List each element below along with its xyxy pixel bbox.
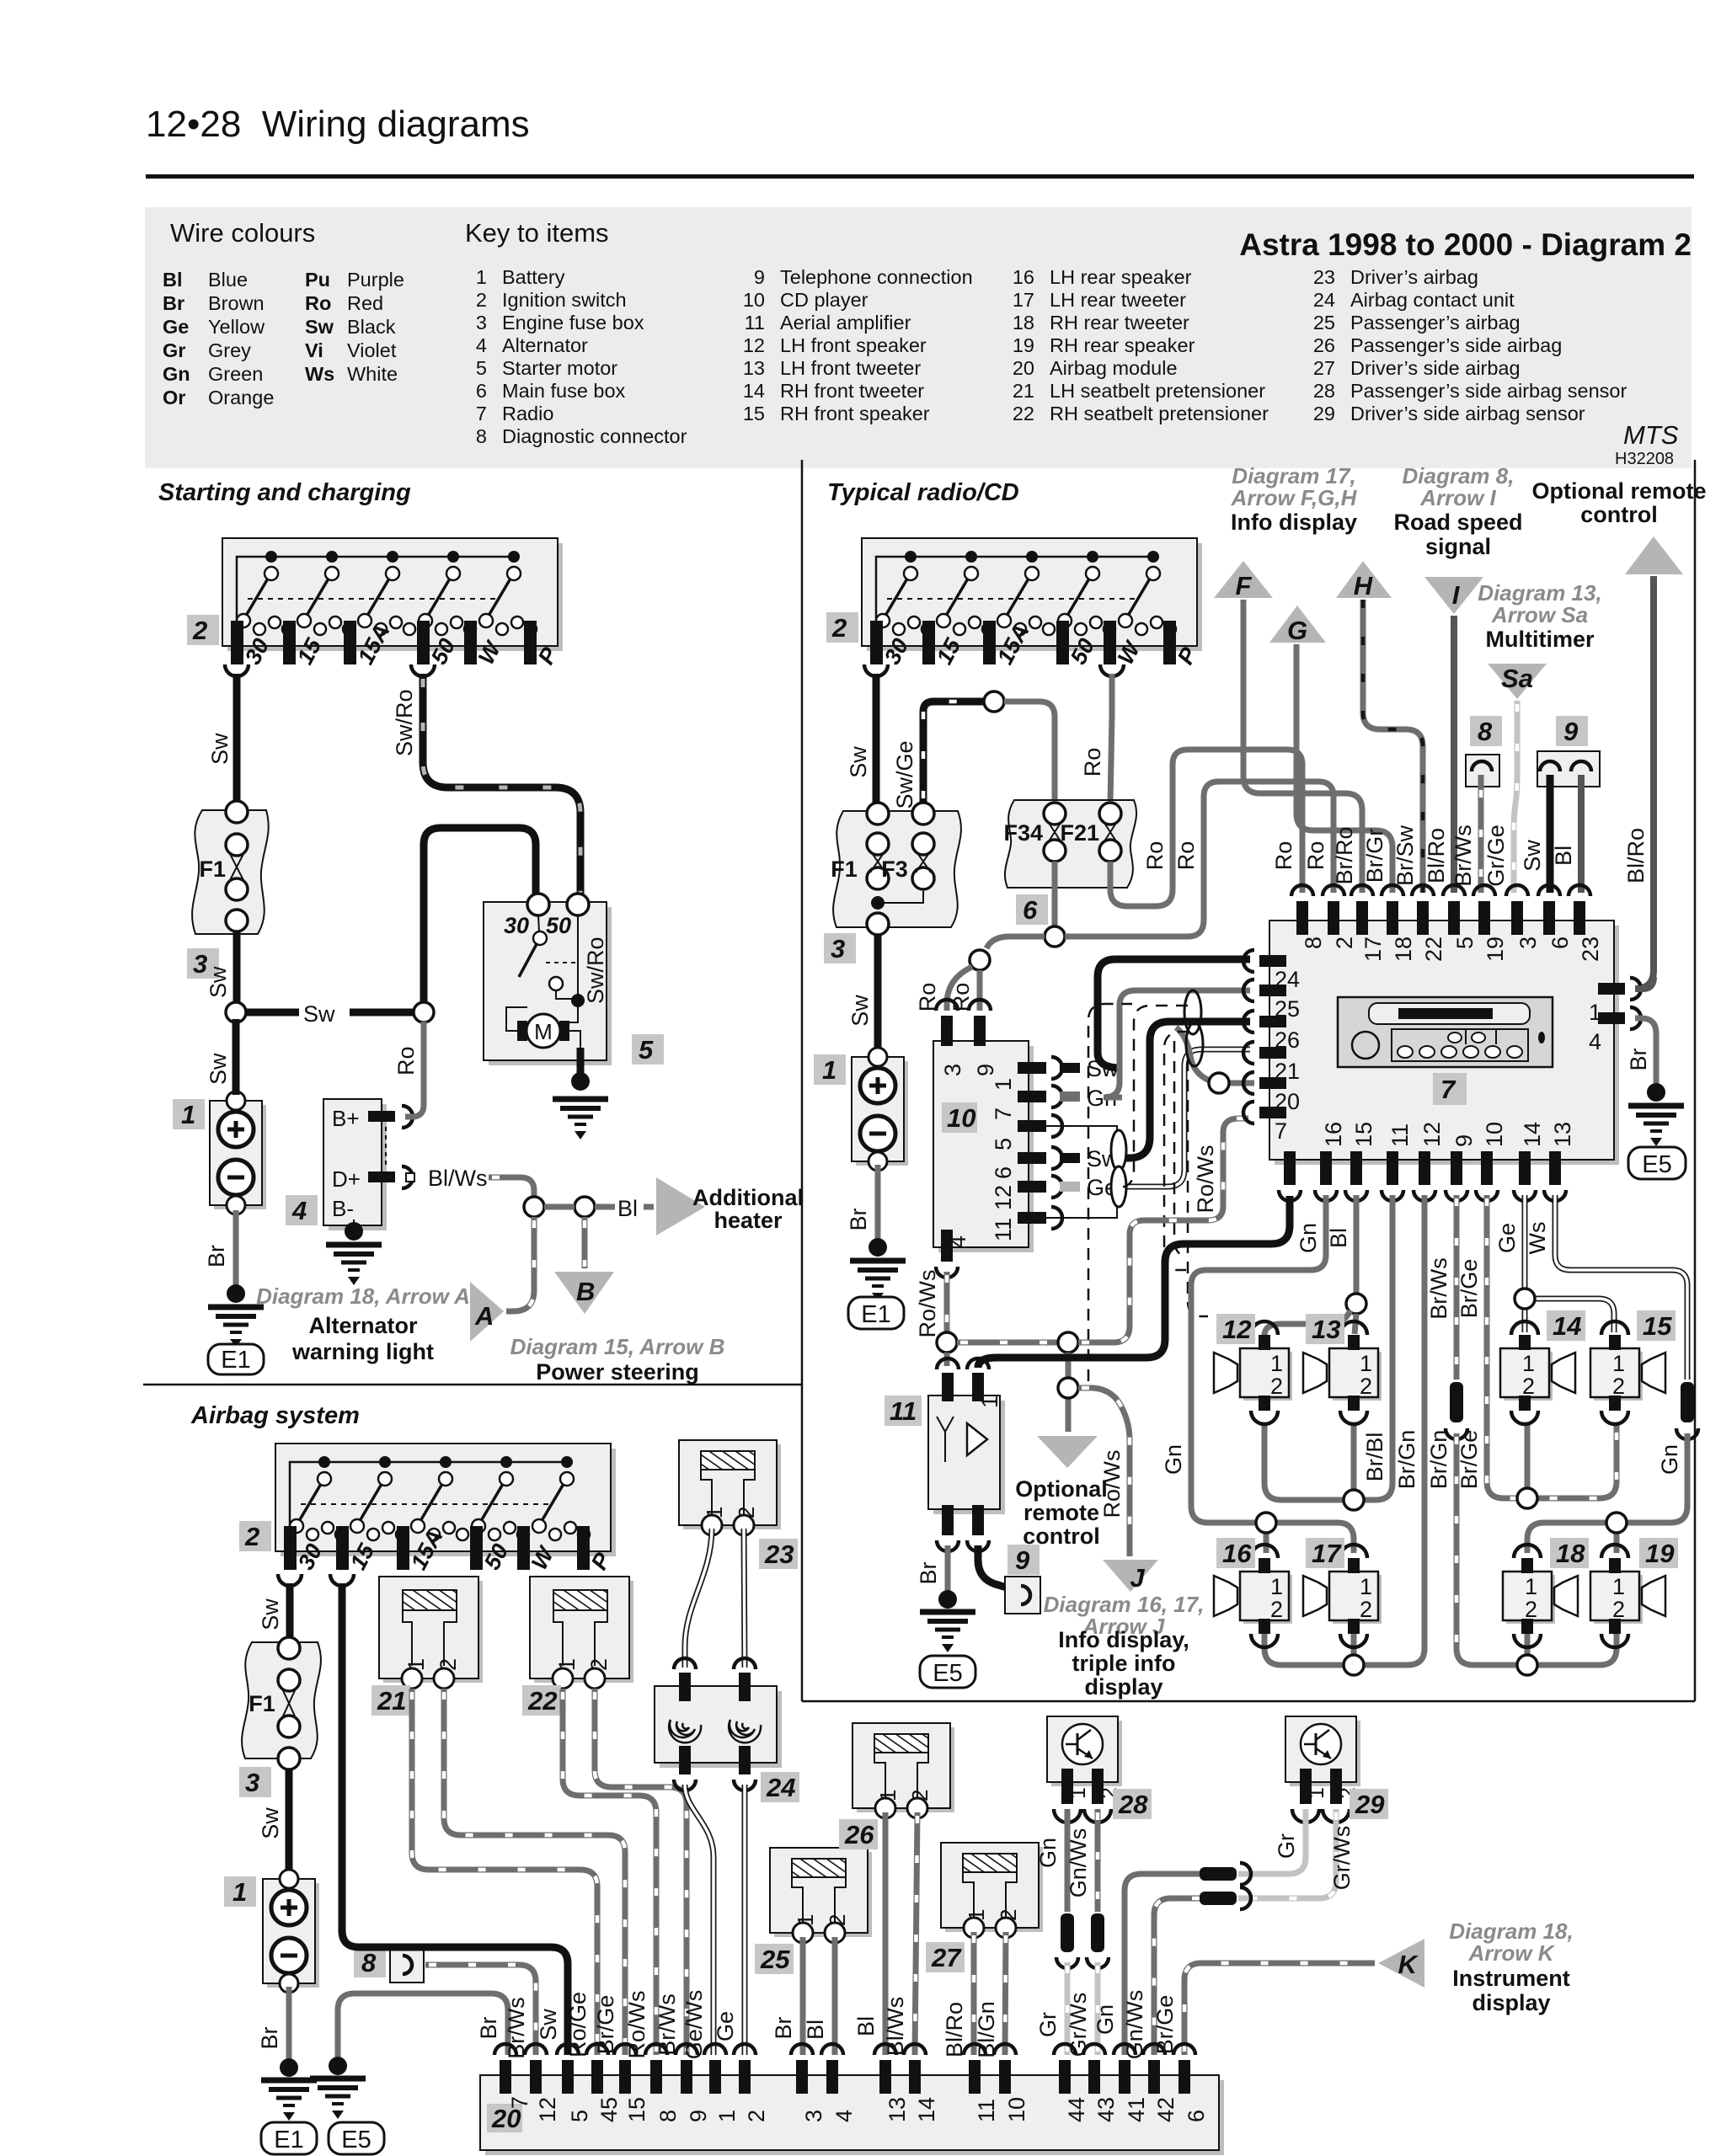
svg-text:19: 19 bbox=[1013, 334, 1034, 356]
svg-text:18: 18 bbox=[1391, 937, 1416, 962]
svg-text:F3: F3 bbox=[881, 857, 908, 882]
svg-text:Grey: Grey bbox=[208, 339, 251, 361]
svg-text:Br: Br bbox=[771, 2016, 796, 2039]
svg-text:Info display: Info display bbox=[1231, 510, 1357, 535]
svg-text:Passenger’s side airbag sensor: Passenger’s side airbag sensor bbox=[1350, 380, 1627, 402]
svg-text:Info display,: Info display, bbox=[1058, 1627, 1189, 1652]
svg-text:Diagnostic connector: Diagnostic connector bbox=[502, 425, 687, 447]
svg-text:13: 13 bbox=[885, 2097, 910, 2122]
svg-text:Br/Ro: Br/Ro bbox=[1332, 826, 1357, 884]
svg-text:Sa: Sa bbox=[1501, 664, 1533, 693]
svg-text:44: 44 bbox=[1064, 2097, 1089, 2122]
svg-text:Ignition switch: Ignition switch bbox=[502, 289, 627, 311]
svg-text:Bl/Ro: Bl/Ro bbox=[1424, 828, 1449, 883]
svg-text:Sw: Sw bbox=[303, 1001, 335, 1027]
svg-text:Ws: Ws bbox=[305, 363, 334, 385]
svg-text:26: 26 bbox=[1275, 1027, 1300, 1053]
svg-text:Arrow K: Arrow K bbox=[1467, 1940, 1555, 1966]
svg-text:7: 7 bbox=[991, 1107, 1016, 1120]
svg-text:Main fuse box: Main fuse box bbox=[502, 380, 626, 402]
svg-text:Alternator: Alternator bbox=[502, 334, 588, 356]
svg-text:Red: Red bbox=[347, 292, 383, 314]
svg-text:MTS: MTS bbox=[1623, 420, 1679, 450]
svg-text:25: 25 bbox=[1275, 996, 1300, 1022]
svg-text:Br/Ws: Br/Ws bbox=[1451, 825, 1476, 887]
svg-text:RH rear speaker: RH rear speaker bbox=[1050, 334, 1195, 356]
svg-text:Br/Ws: Br/Ws bbox=[1426, 1257, 1451, 1320]
svg-text:A: A bbox=[474, 1301, 494, 1331]
svg-text:14: 14 bbox=[1520, 1122, 1545, 1147]
svg-text:Br/Gn: Br/Gn bbox=[1394, 1430, 1419, 1490]
svg-text:11: 11 bbox=[974, 2099, 999, 2122]
svg-text:E1: E1 bbox=[221, 1347, 250, 1374]
svg-text:I: I bbox=[1452, 580, 1461, 610]
svg-text:Sw/Ro: Sw/Ro bbox=[583, 937, 608, 1004]
svg-text:B+: B+ bbox=[332, 1106, 360, 1131]
svg-text:3: 3 bbox=[940, 1064, 965, 1076]
svg-text:G: G bbox=[1287, 616, 1307, 645]
svg-text:2: 2 bbox=[244, 1522, 259, 1551]
svg-text:control: control bbox=[1580, 502, 1658, 527]
svg-text:28: 28 bbox=[1118, 1790, 1148, 1819]
svg-text:Gn: Gn bbox=[1657, 1444, 1682, 1475]
svg-text:3: 3 bbox=[1515, 937, 1541, 949]
svg-text:Ro: Ro bbox=[1142, 841, 1168, 871]
svg-text:RH rear tweeter: RH rear tweeter bbox=[1050, 312, 1189, 334]
svg-text:Telephone connection: Telephone connection bbox=[780, 266, 973, 288]
svg-text:9: 9 bbox=[973, 1064, 998, 1076]
svg-text:13: 13 bbox=[1550, 1122, 1575, 1147]
svg-text:19: 19 bbox=[1483, 937, 1508, 962]
svg-text:Ro/Ws: Ro/Ws bbox=[1193, 1145, 1218, 1214]
svg-text:Ro: Ro bbox=[1271, 841, 1296, 871]
svg-text:Gr: Gr bbox=[1274, 1833, 1299, 1859]
svg-text:CD player: CD player bbox=[780, 289, 869, 311]
svg-text:Sw: Sw bbox=[305, 316, 334, 338]
svg-text:Purple: Purple bbox=[347, 269, 404, 291]
svg-text:Arrow I: Arrow I bbox=[1419, 485, 1496, 510]
svg-text:Br: Br bbox=[476, 2016, 501, 2039]
svg-text:F34: F34 bbox=[1003, 820, 1043, 846]
svg-text:Optional: Optional bbox=[1015, 1476, 1108, 1502]
svg-text:1: 1 bbox=[232, 1877, 247, 1907]
svg-text:Arrow F,G,H: Arrow F,G,H bbox=[1231, 485, 1358, 510]
svg-text:29: 29 bbox=[1313, 403, 1335, 424]
svg-text:21: 21 bbox=[1013, 380, 1034, 402]
svg-text:Bl: Bl bbox=[803, 2020, 828, 2040]
svg-text:17: 17 bbox=[1312, 1539, 1342, 1568]
svg-text:8: 8 bbox=[655, 2110, 681, 2122]
svg-text:Airbag system: Airbag system bbox=[190, 1402, 360, 1429]
svg-text:M: M bbox=[534, 1019, 553, 1044]
svg-text:Gr: Gr bbox=[1035, 2012, 1061, 2037]
svg-text:8: 8 bbox=[1301, 937, 1326, 949]
svg-text:Starting and charging: Starting and charging bbox=[158, 479, 411, 506]
svg-text:15: 15 bbox=[1643, 1311, 1672, 1341]
svg-text:Airbag module: Airbag module bbox=[1050, 357, 1178, 379]
svg-text:22: 22 bbox=[1421, 937, 1446, 962]
svg-text:display: display bbox=[1472, 1990, 1550, 2015]
svg-text:LH seatbelt pretensioner: LH seatbelt pretensioner bbox=[1050, 380, 1265, 402]
svg-text:B: B bbox=[576, 1277, 595, 1306]
svg-text:Br: Br bbox=[916, 1561, 941, 1584]
svg-text:6: 6 bbox=[476, 380, 487, 402]
svg-text:Sw: Sw bbox=[206, 966, 231, 998]
svg-text:Driver’s side airbag: Driver’s side airbag bbox=[1350, 357, 1521, 379]
svg-text:12: 12 bbox=[1222, 1315, 1251, 1344]
svg-text:23: 23 bbox=[1578, 937, 1603, 962]
svg-text:Gr/Ge: Gr/Ge bbox=[1483, 825, 1509, 887]
svg-text:Br: Br bbox=[846, 1208, 871, 1230]
svg-text:H: H bbox=[1354, 571, 1373, 600]
svg-text:Ro: Ro bbox=[1080, 748, 1105, 777]
svg-text:Ro: Ro bbox=[393, 1046, 419, 1075]
svg-text:Ro: Ro bbox=[1173, 841, 1199, 871]
svg-text:Instrument: Instrument bbox=[1452, 1966, 1570, 1991]
svg-text:16: 16 bbox=[1222, 1539, 1252, 1568]
svg-text:24: 24 bbox=[1275, 967, 1300, 992]
svg-text:18: 18 bbox=[1556, 1539, 1585, 1568]
svg-text:19: 19 bbox=[1645, 1539, 1675, 1568]
svg-text:RH front speaker: RH front speaker bbox=[780, 403, 930, 424]
svg-text:21: 21 bbox=[1275, 1059, 1300, 1084]
svg-text:5: 5 bbox=[991, 1138, 1016, 1150]
svg-text:2: 2 bbox=[1332, 937, 1357, 949]
svg-text:E1: E1 bbox=[274, 2127, 303, 2153]
svg-text:Ro/Ws: Ro/Ws bbox=[915, 1270, 940, 1338]
svg-text:Br/Gn: Br/Gn bbox=[1426, 1430, 1451, 1490]
svg-text:Green: Green bbox=[208, 363, 263, 385]
svg-text:8: 8 bbox=[361, 1948, 377, 1977]
svg-text:Br: Br bbox=[1626, 1048, 1651, 1070]
svg-text:LH rear tweeter: LH rear tweeter bbox=[1050, 289, 1186, 311]
svg-text:7: 7 bbox=[507, 2096, 532, 2109]
svg-text:9: 9 bbox=[754, 266, 765, 288]
svg-text:6: 6 bbox=[991, 1166, 1016, 1179]
svg-text:Ws: Ws bbox=[1525, 1222, 1550, 1255]
svg-text:14: 14 bbox=[743, 380, 765, 402]
svg-text:Br: Br bbox=[204, 1245, 229, 1267]
svg-text:25: 25 bbox=[1313, 312, 1335, 334]
svg-text:Typical radio/CD: Typical radio/CD bbox=[827, 479, 1019, 506]
svg-text:24: 24 bbox=[766, 1773, 795, 1802]
svg-text:Passenger’s side airbag: Passenger’s side airbag bbox=[1350, 334, 1562, 356]
svg-text:Br/Ge: Br/Ge bbox=[1456, 1259, 1482, 1319]
svg-text:D+: D+ bbox=[332, 1166, 361, 1192]
svg-text:Gn: Gn bbox=[1093, 2004, 1118, 2035]
svg-text:17: 17 bbox=[1013, 289, 1034, 311]
svg-text:Diagram 18, Arrow A: Diagram 18, Arrow A bbox=[256, 1283, 470, 1309]
svg-text:4: 4 bbox=[945, 1235, 970, 1248]
svg-text:28: 28 bbox=[1313, 380, 1335, 402]
svg-text:Ro: Ro bbox=[305, 292, 331, 314]
svg-text:20: 20 bbox=[1013, 357, 1034, 379]
svg-text:F1: F1 bbox=[831, 857, 858, 882]
svg-text:4: 4 bbox=[831, 2110, 857, 2122]
svg-text:Battery: Battery bbox=[502, 266, 565, 288]
svg-text:signal: signal bbox=[1425, 534, 1491, 559]
svg-text:Alternator: Alternator bbox=[308, 1313, 418, 1338]
svg-text:8: 8 bbox=[1478, 717, 1493, 746]
svg-text:8: 8 bbox=[476, 425, 487, 447]
svg-text:6: 6 bbox=[1547, 937, 1573, 949]
svg-text:41: 41 bbox=[1124, 2097, 1149, 2122]
svg-text:Sw: Sw bbox=[536, 2009, 561, 2041]
svg-text:1: 1 bbox=[181, 1100, 195, 1129]
svg-text:White: White bbox=[347, 363, 398, 385]
svg-text:triple info: triple info bbox=[1072, 1651, 1176, 1676]
svg-text:Radio: Radio bbox=[502, 403, 553, 424]
svg-text:LH rear speaker: LH rear speaker bbox=[1050, 266, 1192, 288]
svg-text:23: 23 bbox=[764, 1540, 794, 1569]
svg-text:Power steering: Power steering bbox=[536, 1359, 699, 1385]
svg-text:26: 26 bbox=[844, 1820, 874, 1849]
svg-text:Bl: Bl bbox=[163, 269, 183, 291]
svg-text:F21: F21 bbox=[1060, 820, 1099, 846]
svg-text:2: 2 bbox=[831, 613, 847, 643]
svg-text:Multitimer: Multitimer bbox=[1485, 627, 1594, 652]
svg-text:5: 5 bbox=[639, 1035, 654, 1065]
svg-text:3: 3 bbox=[476, 312, 487, 334]
svg-text:Br/Ge: Br/Ge bbox=[1456, 1430, 1482, 1490]
svg-text:Sw: Sw bbox=[846, 746, 871, 778]
svg-text:45: 45 bbox=[596, 2097, 622, 2122]
svg-text:Road speed: Road speed bbox=[1393, 510, 1522, 535]
svg-text:F1: F1 bbox=[249, 1691, 275, 1716]
svg-text:Key to items: Key to items bbox=[465, 218, 609, 248]
svg-text:RH seatbelt pretensioner: RH seatbelt pretensioner bbox=[1050, 403, 1269, 424]
svg-text:5: 5 bbox=[476, 357, 487, 379]
svg-text:Optional remote: Optional remote bbox=[1531, 478, 1706, 504]
svg-text:11: 11 bbox=[890, 1396, 917, 1426]
svg-text:9: 9 bbox=[1015, 1545, 1030, 1575]
svg-text:4: 4 bbox=[1589, 1029, 1601, 1054]
svg-text:Arrow Sa: Arrow Sa bbox=[1491, 602, 1588, 627]
svg-text:7: 7 bbox=[1275, 1118, 1287, 1144]
svg-text:5: 5 bbox=[1452, 937, 1478, 949]
svg-text:Sw: Sw bbox=[1520, 840, 1545, 872]
svg-text:12: 12 bbox=[991, 1185, 1016, 1210]
svg-text:Gr/Ws: Gr/Ws bbox=[1329, 1826, 1355, 1890]
svg-text:42: 42 bbox=[1153, 2097, 1179, 2122]
svg-text:Starter motor: Starter motor bbox=[502, 357, 617, 379]
svg-text:Sw: Sw bbox=[847, 995, 873, 1027]
svg-text:Br/Bl: Br/Bl bbox=[1362, 1433, 1387, 1482]
svg-text:Passenger’s airbag: Passenger’s airbag bbox=[1350, 312, 1521, 334]
svg-text:LH front tweeter: LH front tweeter bbox=[780, 357, 921, 379]
svg-text:23: 23 bbox=[1313, 266, 1335, 288]
svg-text:Gn: Gn bbox=[163, 363, 190, 385]
svg-text:Br/Ws: Br/Ws bbox=[655, 1993, 680, 2056]
svg-text:25: 25 bbox=[760, 1945, 790, 1974]
svg-text:20: 20 bbox=[1275, 1089, 1300, 1114]
svg-text:Aerial amplifier: Aerial amplifier bbox=[780, 312, 911, 334]
svg-text:K: K bbox=[1398, 1950, 1419, 1979]
svg-text:Gn: Gn bbox=[1035, 1838, 1061, 1868]
svg-text:10: 10 bbox=[1004, 2097, 1029, 2122]
svg-text:9: 9 bbox=[1451, 1134, 1477, 1147]
svg-text:43: 43 bbox=[1093, 2097, 1119, 2122]
svg-text:1: 1 bbox=[991, 1078, 1016, 1091]
svg-text:11: 11 bbox=[1387, 1123, 1413, 1147]
svg-text:Bl/Ro: Bl/Ro bbox=[1623, 828, 1649, 883]
svg-text:15: 15 bbox=[624, 2097, 649, 2122]
svg-text:29: 29 bbox=[1355, 1790, 1385, 1819]
svg-text:Br/Sw: Br/Sw bbox=[1392, 825, 1418, 886]
svg-text:2: 2 bbox=[476, 289, 487, 311]
svg-text:11: 11 bbox=[991, 1218, 1016, 1241]
svg-text:B-: B- bbox=[332, 1196, 354, 1221]
svg-text:13: 13 bbox=[743, 357, 765, 379]
svg-text:1: 1 bbox=[822, 1055, 836, 1085]
svg-text:H32208: H32208 bbox=[1615, 450, 1674, 468]
svg-text:Brown: Brown bbox=[208, 292, 265, 314]
svg-text:12: 12 bbox=[535, 2097, 560, 2122]
svg-text:10: 10 bbox=[1482, 1122, 1507, 1147]
svg-text:Vi: Vi bbox=[305, 339, 323, 361]
svg-text:Sw: Sw bbox=[206, 1053, 231, 1085]
svg-text:5: 5 bbox=[567, 2110, 592, 2122]
svg-text:1: 1 bbox=[714, 2110, 740, 2122]
svg-text:4: 4 bbox=[291, 1196, 307, 1225]
svg-text:7: 7 bbox=[1440, 1075, 1456, 1104]
svg-text:30: 30 bbox=[504, 913, 529, 938]
svg-text:14: 14 bbox=[914, 2097, 939, 2122]
svg-text:Astra 1998 to 2000 - Diagram 2: Astra 1998 to 2000 - Diagram 2 bbox=[1239, 227, 1692, 262]
svg-text:Ge: Ge bbox=[713, 2011, 738, 2041]
svg-text:27: 27 bbox=[1313, 357, 1335, 379]
svg-text:Engine fuse box: Engine fuse box bbox=[502, 312, 644, 334]
svg-text:heater: heater bbox=[714, 1208, 783, 1233]
svg-text:14: 14 bbox=[1553, 1311, 1581, 1341]
svg-text:12: 12 bbox=[743, 334, 765, 356]
svg-text:17: 17 bbox=[1360, 937, 1386, 962]
svg-text:21: 21 bbox=[377, 1686, 406, 1716]
svg-text:2: 2 bbox=[744, 2110, 769, 2122]
svg-text:1: 1 bbox=[476, 266, 487, 288]
svg-text:Br/Gr: Br/Gr bbox=[1362, 829, 1387, 883]
svg-text:13: 13 bbox=[1312, 1315, 1340, 1344]
svg-text:Driver’s airbag: Driver’s airbag bbox=[1350, 266, 1478, 288]
svg-text:Ro: Ro bbox=[1303, 841, 1328, 871]
svg-text:16: 16 bbox=[1321, 1122, 1346, 1147]
svg-text:E5: E5 bbox=[933, 1660, 962, 1687]
svg-text:15: 15 bbox=[1351, 1122, 1376, 1147]
svg-text:Br: Br bbox=[163, 292, 184, 314]
svg-text:12•28 Wiring diagrams: 12•28 Wiring diagrams bbox=[146, 104, 530, 145]
svg-text:Bl: Bl bbox=[1551, 846, 1576, 866]
svg-text:6: 6 bbox=[1184, 2110, 1209, 2122]
svg-text:Violet: Violet bbox=[347, 339, 397, 361]
svg-text:Bl/Ws: Bl/Ws bbox=[428, 1166, 488, 1191]
svg-text:Bl: Bl bbox=[617, 1196, 638, 1221]
svg-text:E5: E5 bbox=[1642, 1151, 1671, 1178]
svg-text:RH front tweeter: RH front tweeter bbox=[780, 380, 924, 402]
svg-text:22: 22 bbox=[1013, 403, 1034, 424]
svg-text:12: 12 bbox=[1419, 1122, 1445, 1147]
svg-text:9: 9 bbox=[1563, 717, 1579, 746]
svg-text:Ge: Ge bbox=[1494, 1223, 1520, 1253]
svg-text:Bl: Bl bbox=[1326, 1228, 1351, 1248]
svg-text:26: 26 bbox=[1313, 334, 1335, 356]
svg-text:Driver’s side airbag sensor: Driver’s side airbag sensor bbox=[1350, 403, 1585, 424]
svg-text:display: display bbox=[1084, 1674, 1162, 1700]
svg-text:Additional: Additional bbox=[692, 1185, 804, 1210]
svg-text:3: 3 bbox=[831, 934, 845, 963]
svg-text:E5: E5 bbox=[341, 2127, 371, 2153]
svg-text:F: F bbox=[1236, 571, 1253, 600]
svg-text:1: 1 bbox=[977, 1396, 1002, 1408]
svg-text:11: 11 bbox=[745, 312, 765, 334]
svg-text:LH front speaker: LH front speaker bbox=[780, 334, 927, 356]
svg-text:Yellow: Yellow bbox=[208, 316, 265, 338]
svg-text:F1: F1 bbox=[199, 857, 226, 882]
svg-text:Orange: Orange bbox=[208, 387, 274, 408]
svg-text:Pu: Pu bbox=[305, 269, 330, 291]
svg-text:18: 18 bbox=[1013, 312, 1034, 334]
svg-text:3: 3 bbox=[801, 2110, 826, 2122]
svg-text:7: 7 bbox=[476, 403, 487, 424]
svg-text:Gn/Ws: Gn/Ws bbox=[1066, 1828, 1091, 1898]
svg-text:24: 24 bbox=[1313, 289, 1335, 311]
svg-text:Ge: Ge bbox=[163, 316, 189, 338]
svg-text:10: 10 bbox=[743, 289, 765, 311]
svg-text:warning light: warning light bbox=[291, 1339, 434, 1364]
svg-text:Sw: Sw bbox=[207, 733, 232, 765]
svg-text:2: 2 bbox=[192, 616, 207, 645]
svg-text:Diagram 15, Arrow B: Diagram 15, Arrow B bbox=[510, 1334, 725, 1359]
svg-text:9: 9 bbox=[686, 2110, 711, 2122]
svg-text:3: 3 bbox=[245, 1768, 259, 1797]
svg-text:27: 27 bbox=[931, 1943, 962, 1972]
svg-text:1: 1 bbox=[1589, 1000, 1601, 1025]
svg-text:Blue: Blue bbox=[208, 269, 248, 291]
svg-text:Sw: Sw bbox=[258, 1598, 283, 1630]
svg-text:Wire colours: Wire colours bbox=[170, 218, 315, 248]
svg-text:Or: Or bbox=[163, 387, 185, 408]
svg-text:16: 16 bbox=[1013, 266, 1034, 288]
svg-text:J: J bbox=[1130, 1563, 1145, 1593]
svg-text:50: 50 bbox=[546, 913, 571, 938]
svg-text:4: 4 bbox=[476, 334, 487, 356]
svg-text:22: 22 bbox=[527, 1686, 557, 1716]
svg-text:Sw/Ge: Sw/Ge bbox=[892, 740, 917, 808]
svg-text:Sw: Sw bbox=[258, 1807, 283, 1839]
svg-text:Bl: Bl bbox=[853, 2016, 879, 2036]
svg-text:Gr: Gr bbox=[163, 339, 185, 361]
svg-text:Black: Black bbox=[347, 316, 396, 338]
svg-text:15: 15 bbox=[743, 403, 765, 424]
svg-text:Gn: Gn bbox=[1161, 1444, 1186, 1475]
svg-text:E1: E1 bbox=[861, 1301, 890, 1328]
svg-text:6: 6 bbox=[1023, 895, 1038, 925]
svg-text:remote: remote bbox=[1024, 1500, 1099, 1525]
svg-text:Br: Br bbox=[257, 2026, 282, 2049]
svg-text:Sw/Ro: Sw/Ro bbox=[392, 689, 417, 756]
svg-text:10: 10 bbox=[947, 1103, 975, 1133]
svg-text:Gn: Gn bbox=[1296, 1223, 1321, 1253]
svg-text:Airbag contact unit: Airbag contact unit bbox=[1350, 289, 1515, 311]
